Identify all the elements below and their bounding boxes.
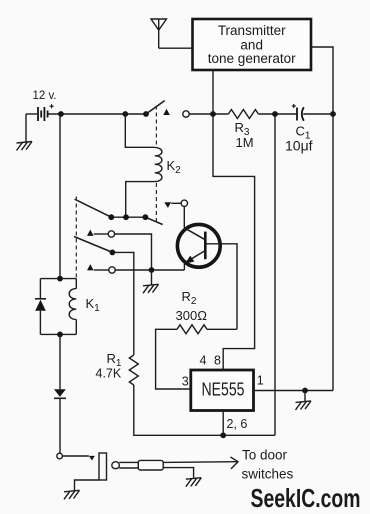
wire K1 supply rail	[59, 114, 61, 279]
dashed actuation line K1	[75, 197, 77, 278]
svg-text:10μf: 10μf	[285, 138, 313, 154]
wire contact to R3	[189, 113, 228, 115]
switch arm (K1 pole, row A)	[75, 199, 112, 217]
ground (plug sleeve)	[186, 478, 202, 487]
switch arm (K2 contact, top)	[146, 101, 165, 114]
svg-text:To door: To door	[242, 448, 288, 463]
contact marker triangle (base contact)	[164, 202, 171, 208]
phone plug	[112, 460, 163, 470]
wire row C stub	[94, 269, 109, 271]
contact circle (jack tip)	[57, 453, 63, 459]
node supply junction to K1 rail	[58, 111, 64, 117]
wire R2 right to collector rail	[207, 328, 237, 330]
svg-text:8: 8	[214, 354, 221, 368]
contact marker triangle (row B)	[87, 230, 94, 236]
wire 12V supply rail	[48, 113, 146, 115]
svg-text:R2: R2	[182, 289, 197, 307]
node R3/C1 junction to 555 trigger rail	[272, 111, 278, 117]
wire switch row A	[111, 216, 145, 218]
wire jack sleeve to ground	[75, 480, 100, 491]
wire K1 bottom rail	[59, 334, 61, 389]
svg-text:4.7K: 4.7K	[96, 367, 122, 381]
switch arm (K1 pole, middle)	[74, 237, 112, 253]
ground (emitter)	[143, 270, 159, 293]
node K2 coil branch	[122, 111, 128, 117]
contact marker triangle (jack)	[89, 456, 95, 461]
svg-text:1: 1	[257, 374, 264, 388]
svg-text:K1: K1	[86, 296, 101, 314]
wire R3 to C1	[258, 113, 296, 115]
switch arm (K2 pole, row A right)	[145, 217, 162, 224]
contact circle (base contact)	[181, 200, 187, 206]
relay coil K2	[125, 114, 162, 217]
node K1 bottom	[57, 332, 63, 338]
node R3 left junction	[210, 111, 216, 117]
wire R2 left to pin 3	[156, 329, 191, 389]
node emitter junction	[149, 267, 155, 273]
svg-text:300Ω: 300Ω	[176, 308, 208, 323]
svg-text:3: 3	[182, 375, 189, 389]
transistor Q1	[177, 224, 220, 270]
node switch pivot	[143, 111, 149, 117]
phone jack socket	[99, 453, 107, 480]
wire pins 2,6 to junction	[222, 411, 224, 436]
IC NE555	[191, 370, 254, 411]
dashed actuation line K2 (lower)	[155, 183, 157, 223]
relay K1 with diode	[35, 279, 76, 335]
capacitor C1	[292, 104, 333, 121]
svg-text:switches: switches	[242, 467, 294, 482]
svg-text:Transmitter: Transmitter	[218, 23, 286, 38]
node row A left	[108, 214, 114, 220]
wire contact to transistor base	[183, 207, 185, 228]
wire collector to R2	[205, 244, 237, 329]
wire row C to transistor emitter	[115, 269, 184, 271]
wire R1 bottom to pins 2,6 row	[134, 385, 275, 435]
contact circle (top switch)	[183, 111, 189, 117]
antenna	[151, 19, 167, 48]
node pin 1 ground junction	[302, 388, 308, 394]
svg-text:tone generator: tone generator	[208, 51, 296, 66]
node pins 2,6 junction	[220, 432, 226, 438]
svg-text:12 v.: 12 v.	[33, 90, 57, 102]
resistor R2	[177, 325, 207, 334]
node C1 right junction	[330, 111, 336, 117]
svg-text:K2: K2	[167, 158, 182, 176]
node middle pole	[110, 250, 116, 256]
node row A middle (K2 coil return)	[123, 214, 129, 220]
resistor R1	[129, 355, 138, 385]
svg-text:NE555: NE555	[202, 380, 245, 400]
ground (battery)	[17, 114, 33, 151]
svg-text:4: 4	[200, 354, 207, 368]
wire antenna to transmitter box	[159, 47, 193, 49]
ground (jack)	[64, 490, 80, 499]
svg-text:2, 6: 2, 6	[227, 417, 248, 431]
wire row B stub	[94, 233, 108, 235]
ground (pin 1)	[296, 391, 312, 410]
contact marker triangle (top switch)	[163, 109, 170, 115]
wire row B contact to emitter node	[115, 234, 152, 270]
wire plug to door switches with arrow	[163, 457, 238, 469]
wire contact stub to circle	[171, 202, 181, 204]
node row A right	[143, 214, 149, 220]
wire pin 1 to ground rail	[254, 390, 334, 392]
wire plug sleeve to ground	[163, 468, 193, 478]
battery 12V	[26, 104, 54, 121]
transmitter box	[193, 19, 312, 70]
wire middle pole to R1	[112, 252, 133, 355]
wire trigger rail (R3/C1 node down to pins 2,6 row)	[274, 114, 276, 435]
contact marker triangle (row C)	[87, 264, 94, 270]
resistor R3	[228, 110, 258, 119]
node K1 top	[57, 276, 63, 282]
wire transmitter box right side down to C1 node and pin 1 rail	[311, 47, 333, 391]
wire jack tip	[63, 455, 89, 457]
dashed actuation line K2 (upper)	[155, 106, 157, 147]
wire supply junction to 555 pins 4 8	[213, 114, 255, 370]
svg-text:SeekIC.com: SeekIC.com	[251, 483, 361, 513]
wire transmitter box bottom to supply rail	[212, 70, 214, 114]
contact circle (row C)	[109, 267, 115, 273]
diode D2	[54, 389, 66, 453]
contact circle (row B)	[108, 231, 114, 237]
svg-text:1M: 1M	[236, 135, 254, 150]
